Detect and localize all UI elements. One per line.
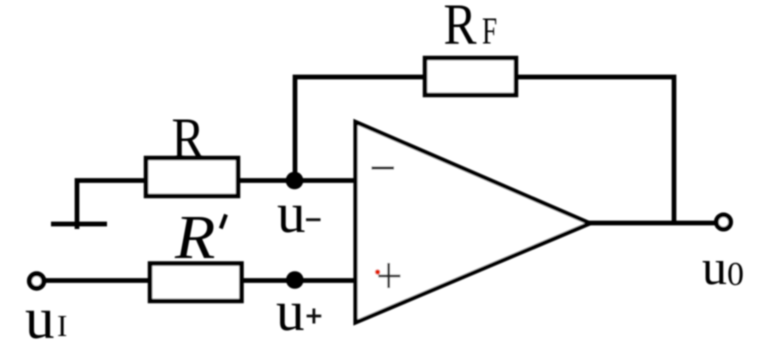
svg-text:u: u <box>276 280 305 343</box>
svg-text:u: u <box>277 182 306 245</box>
svg-text:u: u <box>702 239 727 295</box>
svg-text:F: F <box>482 11 497 52</box>
svg-text:R: R <box>174 203 215 272</box>
svg-text:I: I <box>57 308 67 343</box>
svg-text:0: 0 <box>727 256 744 293</box>
svg-text:R: R <box>444 0 478 57</box>
svg-text:u: u <box>25 285 55 351</box>
svg-text:R: R <box>172 106 206 171</box>
